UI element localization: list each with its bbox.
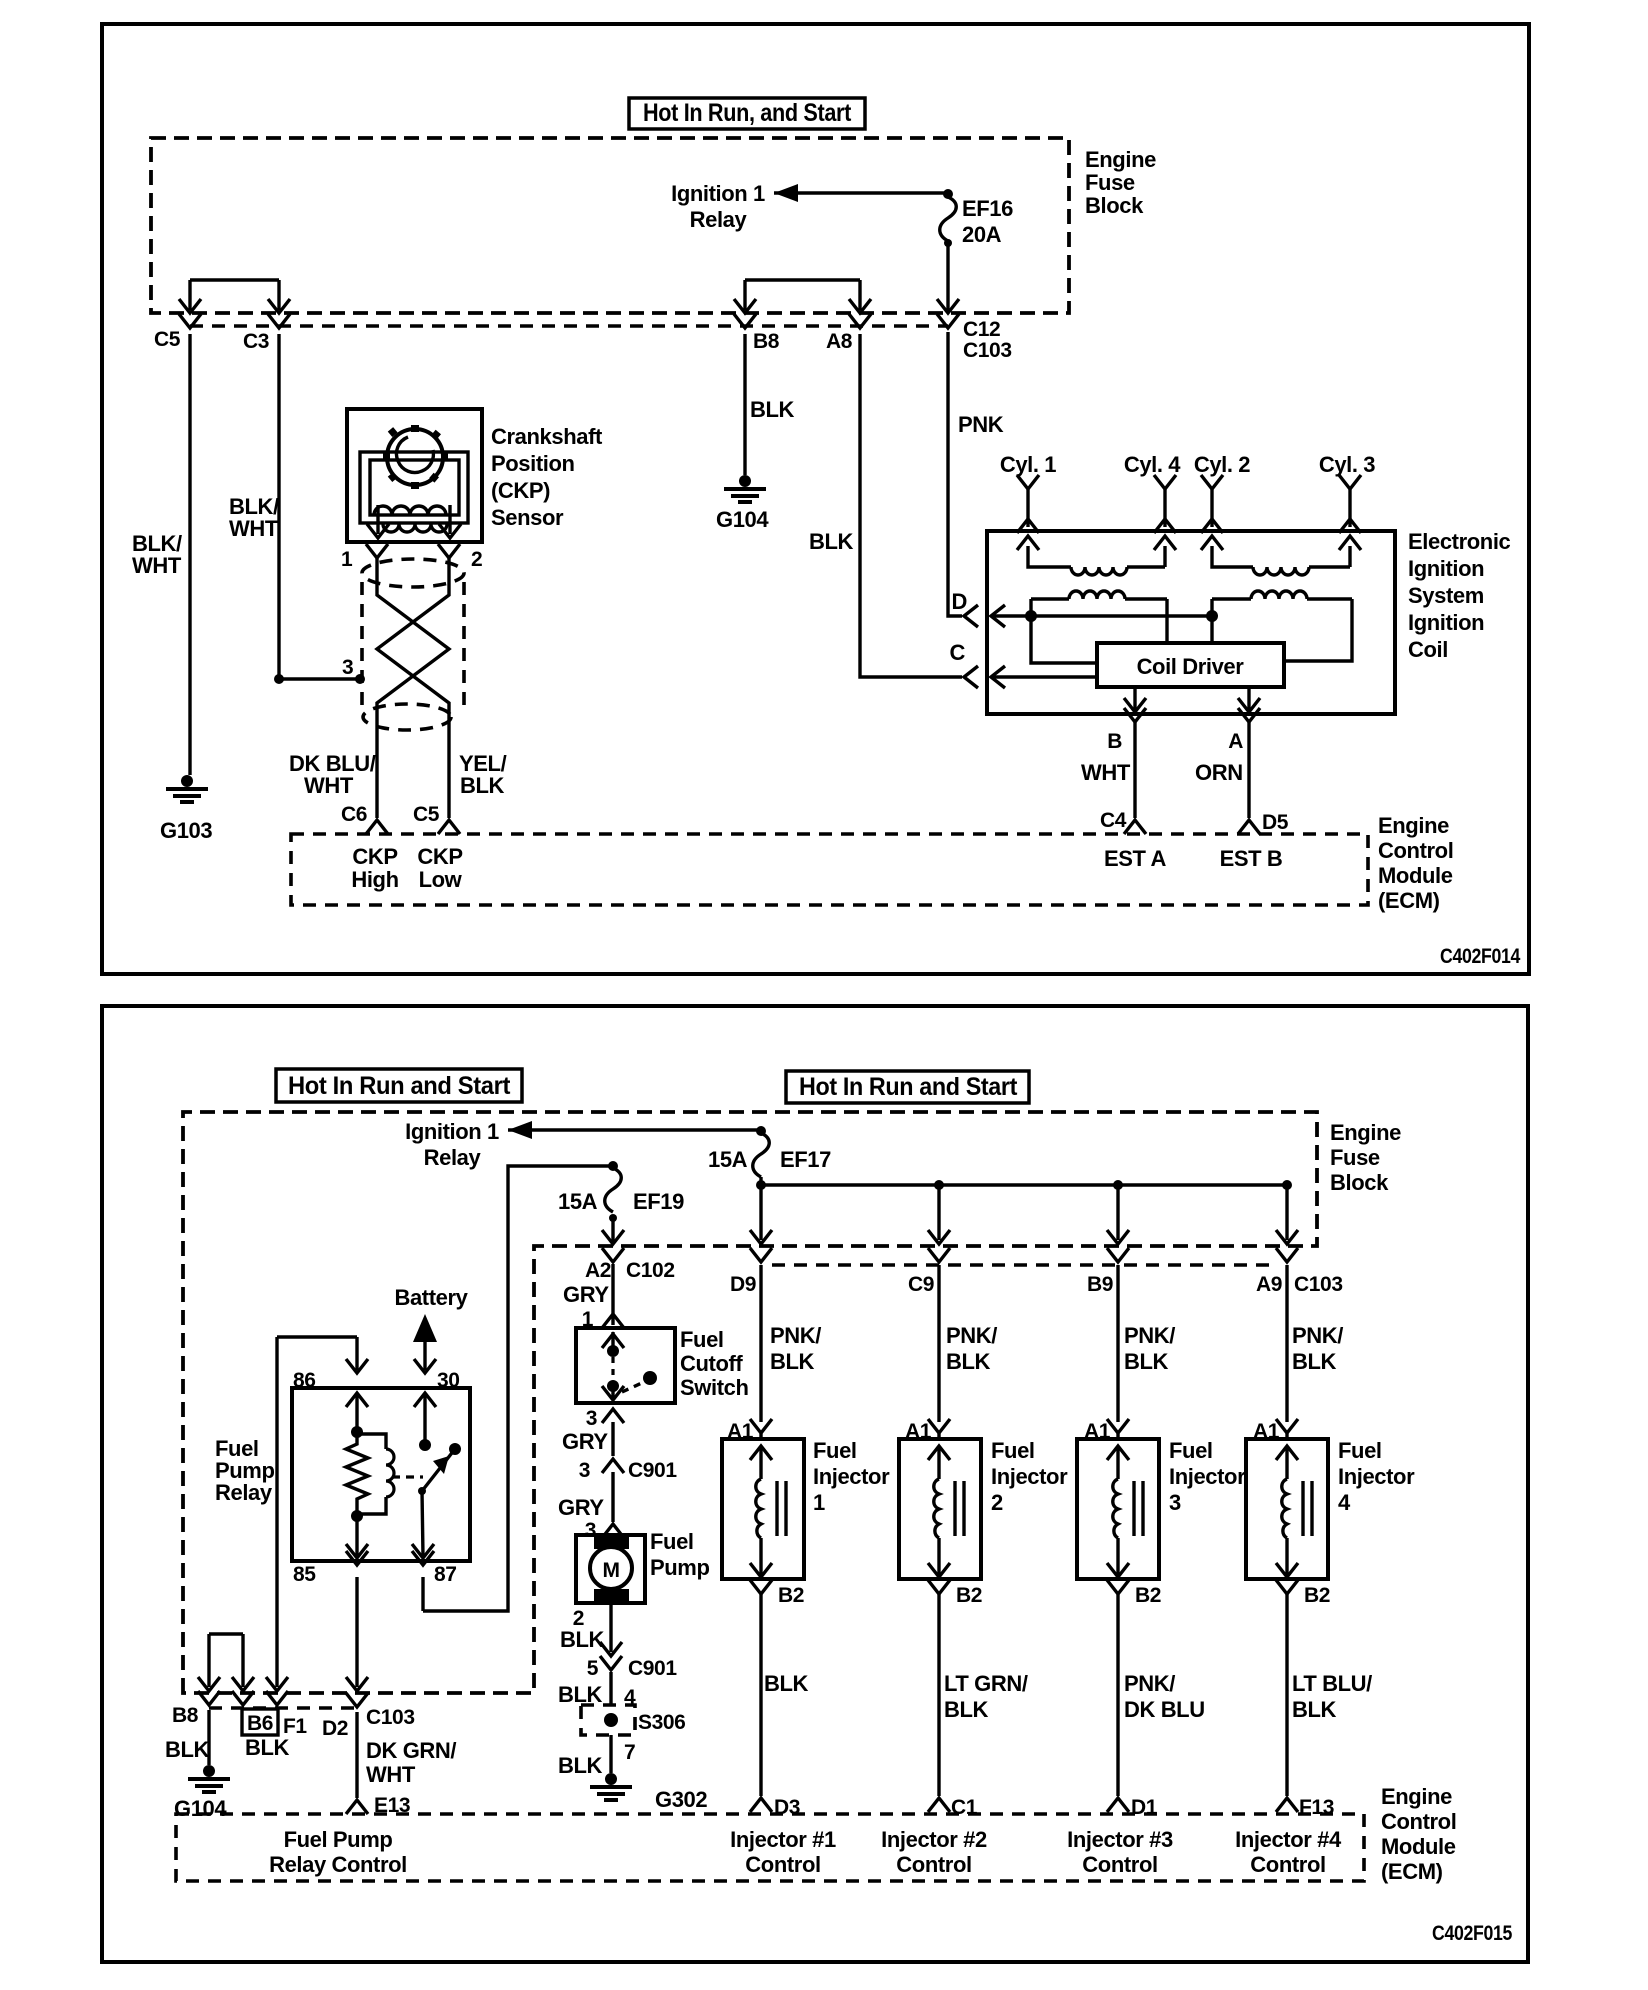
connector C5 low <box>413 803 460 834</box>
svg-text:PNK/: PNK/ <box>1124 1323 1175 1348</box>
svg-text:4: 4 <box>1338 1490 1351 1515</box>
svg-text:C402F015: C402F015 <box>1432 1922 1513 1945</box>
label CKP High <box>351 844 398 892</box>
ignition coil box <box>987 531 1395 714</box>
twisted pair shield <box>362 559 464 730</box>
coil secondary winding cyl2-cyl3 <box>1201 536 1361 575</box>
header label box: Hot In Run, and Start <box>629 98 865 129</box>
relay switch branch <box>392 1393 461 1558</box>
svg-text:G302: G302 <box>655 1787 707 1812</box>
wire from relay 87 to fuse EF19 <box>423 1161 618 1611</box>
svg-text:Fuel: Fuel <box>991 1438 1035 1463</box>
svg-text:Cutoff: Cutoff <box>680 1351 743 1376</box>
svg-text:A8: A8 <box>826 330 853 353</box>
wire BLK to G302 <box>558 1735 635 1778</box>
engine fuse block dashed box <box>151 138 1069 313</box>
connector B9 <box>1087 1248 1129 1296</box>
spark plug connector cyl 4 <box>1154 475 1176 533</box>
wire drop injector 1 supply <box>750 1185 772 1244</box>
wire DK BLU/WHT to C6 <box>289 751 376 798</box>
svg-text:Battery: Battery <box>394 1285 468 1310</box>
svg-text:20A: 20A <box>962 222 1002 247</box>
label Engine Fuse Block <box>1085 147 1156 218</box>
wire EF16 to C12 <box>937 243 959 313</box>
label Fuel Pump Relay <box>215 1436 275 1505</box>
svg-text:ORN: ORN <box>1195 760 1243 785</box>
pin 1 <box>341 544 388 571</box>
svg-text:C102: C102 <box>626 1259 675 1282</box>
svg-text:Hot In Run and Start: Hot In Run and Start <box>799 1073 1018 1101</box>
connector B2 injector 4 <box>1276 1580 1330 1607</box>
svg-text:B8: B8 <box>172 1704 199 1727</box>
relay coil branch <box>346 1393 394 1558</box>
svg-text:C103: C103 <box>963 339 1012 362</box>
ground G302 <box>590 1773 707 1812</box>
wire arrow to Ignition 1 Relay <box>774 184 953 202</box>
connector C12 C103 <box>937 314 1012 362</box>
svg-text:Relay: Relay <box>424 1145 482 1170</box>
svg-text:C103: C103 <box>1294 1273 1343 1296</box>
svg-text:Coil Driver: Coil Driver <box>1137 654 1245 679</box>
wire arrow to Ignition 1 Relay (panel2) <box>508 1121 766 1139</box>
label Injector #4 Control <box>1235 1827 1342 1877</box>
label Fuel Injector 2 <box>991 1438 1068 1515</box>
svg-text:Relay: Relay <box>215 1480 273 1505</box>
connector C1 <box>928 1796 978 1819</box>
connector F13 <box>1276 1796 1334 1819</box>
svg-text:A9: A9 <box>1256 1273 1282 1296</box>
wire C5 BLK/WHT to G103 <box>132 334 190 775</box>
wire LT BLU/BLK injector 4 to F13 <box>1287 1594 1372 1796</box>
svg-text:LT BLU/: LT BLU/ <box>1292 1671 1372 1696</box>
svg-text:Relay: Relay <box>690 207 748 232</box>
connector B2 injector 3 <box>1107 1580 1161 1607</box>
svg-text:1: 1 <box>341 548 353 571</box>
wire drop injector 2 supply <box>928 1185 950 1244</box>
svg-text:Electronic: Electronic <box>1408 529 1511 554</box>
wire B8 BLK to G104 <box>745 334 795 475</box>
wire 2 BLK from pump <box>560 1603 622 1656</box>
svg-text:B2: B2 <box>1135 1584 1161 1607</box>
wire bracket 86 feed <box>277 1337 357 1687</box>
svg-text:GRY: GRY <box>562 1429 608 1454</box>
spark plug connector cyl 2 <box>1201 475 1223 533</box>
label Fuel Injector 3 <box>1169 1438 1246 1515</box>
label Fuel Injector 1 <box>813 1438 890 1515</box>
connector B2 injector 2 <box>928 1580 982 1607</box>
twisted pair wires <box>377 558 449 818</box>
svg-text:BLK: BLK <box>460 773 505 798</box>
svg-text:15A: 15A <box>708 1147 748 1172</box>
pin 86 <box>293 1359 368 1392</box>
svg-text:GRY: GRY <box>558 1495 604 1520</box>
connector A9 C103 <box>1256 1248 1343 1296</box>
pin 87 <box>412 1551 457 1586</box>
svg-text:LT GRN/: LT GRN/ <box>944 1671 1028 1696</box>
svg-text:WHT: WHT <box>229 516 279 541</box>
label Fuel Cutoff Switch <box>680 1327 749 1400</box>
svg-text:1: 1 <box>813 1490 825 1515</box>
wire GRY to fuel pump <box>558 1472 624 1542</box>
wire GRY to fuel cutoff switch <box>563 1264 624 1331</box>
svg-text:C5: C5 <box>413 803 440 826</box>
svg-text:M: M <box>602 1559 619 1582</box>
ground G104 <box>716 475 769 532</box>
svg-text:G103: G103 <box>160 818 212 843</box>
wire B8 BLK to G104 (panel2) <box>165 1710 210 1765</box>
svg-text:C: C <box>950 640 966 665</box>
svg-text:85: 85 <box>293 1563 316 1586</box>
fuel injector 4 <box>1246 1439 1328 1579</box>
svg-text:Control: Control <box>1250 1852 1325 1877</box>
label Fuel Pump Relay Control <box>269 1827 407 1877</box>
svg-text:Block: Block <box>1330 1170 1389 1195</box>
label Fuel Injector 4 <box>1338 1438 1415 1515</box>
svg-text:Block: Block <box>1085 193 1144 218</box>
label Crankshaft Position (CKP) Sensor <box>491 424 603 530</box>
coil output B wire <box>1081 687 1146 834</box>
connector 5 C901 <box>587 1656 678 1680</box>
svg-text:A2: A2 <box>585 1259 611 1282</box>
coil driver box <box>1097 643 1284 687</box>
spark plug connector cyl 1 <box>1017 475 1039 533</box>
svg-text:Injector #3: Injector #3 <box>1067 1827 1173 1852</box>
svg-text:C9: C9 <box>908 1273 934 1296</box>
connector F1 <box>266 1691 307 1738</box>
connector C9 <box>908 1248 950 1296</box>
coil secondary winding cyl1-cyl4 <box>1017 536 1176 575</box>
fuse EF17 15A <box>708 1133 831 1177</box>
svg-text:GRY: GRY <box>563 1282 609 1307</box>
coil primary winding 1 <box>1031 591 1167 643</box>
svg-text:EST A: EST A <box>1104 846 1166 871</box>
svg-text:BLK: BLK <box>245 1735 290 1760</box>
crankshaft position sensor <box>347 409 482 542</box>
pin 85 <box>293 1551 368 1586</box>
svg-text:WHT: WHT <box>1081 760 1131 785</box>
fuel cutoff switch <box>576 1328 675 1403</box>
svg-text:B6: B6 <box>247 1712 273 1735</box>
svg-text:C901: C901 <box>628 1459 677 1482</box>
svg-text:Injector: Injector <box>813 1464 890 1489</box>
svg-text:BLK: BLK <box>558 1753 603 1778</box>
svg-text:87: 87 <box>434 1563 457 1586</box>
ECM dashed box (panel1) <box>291 834 1368 905</box>
svg-text:Ignition: Ignition <box>1408 610 1484 635</box>
fuel pump relay box <box>292 1388 470 1561</box>
svg-text:Module: Module <box>1381 1834 1456 1859</box>
label Engine Fuse Block (panel2) <box>1330 1120 1401 1195</box>
wire A8 BLK to coil input C <box>809 334 962 677</box>
connector D1 <box>1107 1796 1158 1819</box>
svg-text:Cyl. 1: Cyl. 1 <box>1000 452 1056 477</box>
svg-text:D9: D9 <box>730 1273 756 1296</box>
svg-text:Sensor: Sensor <box>491 505 564 530</box>
fuel pump motor <box>576 1535 645 1603</box>
svg-text:BLK: BLK <box>750 397 795 422</box>
svg-text:Ignition 1: Ignition 1 <box>671 181 765 206</box>
svg-text:D2: D2 <box>322 1717 348 1740</box>
svg-text:BLK: BLK <box>944 1697 989 1722</box>
wire PNK/BLK injector 1 <box>761 1265 821 1422</box>
svg-text:B2: B2 <box>778 1584 804 1607</box>
svg-text:Engine: Engine <box>1378 813 1449 838</box>
svg-text:S306: S306 <box>638 1711 685 1734</box>
label Ignition 1 Relay <box>671 181 765 232</box>
label Electronic Ignition System Ignition Coil <box>1408 529 1511 662</box>
svg-text:B8: B8 <box>753 330 780 353</box>
svg-text:WHT: WHT <box>132 553 182 578</box>
svg-text:Fuse: Fuse <box>1085 170 1135 195</box>
svg-text:C4: C4 <box>1100 809 1127 832</box>
svg-text:C901: C901 <box>628 1657 677 1680</box>
connector D2 C103 <box>322 1677 415 1740</box>
svg-text:PNK: PNK <box>958 412 1004 437</box>
svg-text:BLK: BLK <box>1124 1349 1169 1374</box>
label Fuel Pump <box>650 1529 710 1580</box>
wire LT GRN/BLK injector 2 to C1 <box>939 1594 1028 1796</box>
connector B6 boxed <box>232 1691 278 1735</box>
wire bracket C5/C3 <box>179 280 290 313</box>
svg-text:Coil: Coil <box>1408 637 1448 662</box>
svg-text:PNK/: PNK/ <box>1292 1323 1343 1348</box>
label Ignition 1 Relay (panel2) <box>405 1119 499 1170</box>
svg-text:Fuel: Fuel <box>813 1438 857 1463</box>
svg-text:Module: Module <box>1378 863 1453 888</box>
svg-text:C5: C5 <box>154 328 181 351</box>
label Injector #3 Control <box>1067 1827 1173 1877</box>
ECM dashed box (panel2) <box>176 1814 1364 1881</box>
svg-text:Control: Control <box>896 1852 971 1877</box>
svg-text:BLK: BLK <box>560 1627 605 1652</box>
wire D2 DK GRN/WHT to E13 <box>357 1712 456 1798</box>
svg-text:5: 5 <box>587 1657 599 1680</box>
svg-text:Fuse: Fuse <box>1330 1145 1380 1170</box>
ground G103 <box>160 775 212 843</box>
svg-text:B2: B2 <box>956 1584 982 1607</box>
svg-text:G104: G104 <box>716 507 769 532</box>
wire BLK injector 1 to D3 <box>761 1594 809 1796</box>
coil input C <box>950 640 1098 688</box>
svg-text:Hot In Run, and Start: Hot In Run, and Start <box>643 99 852 127</box>
svg-text:Fuel: Fuel <box>1338 1438 1382 1463</box>
svg-text:C402F014: C402F014 <box>1440 945 1521 968</box>
connector B8 <box>734 314 780 353</box>
label Engine Control Module (ECM) <box>1378 813 1453 913</box>
svg-text:PNK/: PNK/ <box>770 1323 821 1348</box>
svg-text:3: 3 <box>342 656 353 679</box>
svg-text:WHT: WHT <box>366 1762 416 1787</box>
svg-text:Pump: Pump <box>650 1555 710 1580</box>
header label box left: Hot In Run and Start <box>276 1069 522 1102</box>
svg-text:Engine: Engine <box>1330 1120 1401 1145</box>
wire C3 BLK/WHT to pin 3 <box>229 334 365 684</box>
svg-text:WHT: WHT <box>304 773 354 798</box>
wire EF19 to A2 <box>602 1218 624 1244</box>
svg-text:DK BLU: DK BLU <box>1124 1697 1205 1722</box>
fuse EF16 20A <box>940 196 1013 247</box>
injector supply bus wire <box>756 1177 1292 1190</box>
svg-text:Injector #2: Injector #2 <box>881 1827 987 1852</box>
svg-text:D5: D5 <box>1262 811 1289 834</box>
svg-text:15A: 15A <box>558 1189 598 1214</box>
svg-text:2: 2 <box>471 548 482 571</box>
wire C12 PNK to coil input D <box>948 332 1004 616</box>
svg-text:Crankshaft: Crankshaft <box>491 424 603 449</box>
svg-text:DK GRN/: DK GRN/ <box>366 1738 456 1763</box>
svg-text:PNK/: PNK/ <box>1124 1671 1175 1696</box>
svg-text:C3: C3 <box>243 330 269 353</box>
connector A1 injector 3 <box>1084 1419 1129 1443</box>
svg-text:D: D <box>952 589 968 614</box>
ground loop B8-B6 <box>198 1634 288 1691</box>
connector pin 3 below switch <box>586 1407 624 1430</box>
connector A8 <box>826 314 871 353</box>
svg-text:Cyl. 4: Cyl. 4 <box>1124 452 1181 477</box>
coil primary winding 2 <box>1212 591 1352 661</box>
header label box right: Hot In Run and Start <box>786 1071 1029 1103</box>
svg-text:Hot In Run and Start: Hot In Run and Start <box>288 1072 511 1100</box>
connector dashed line C103 (panel2 bottom) <box>209 1706 357 1710</box>
svg-text:Injector #1: Injector #1 <box>730 1827 836 1852</box>
fuel injector 1 <box>722 1439 804 1579</box>
svg-text:C12: C12 <box>963 318 1000 341</box>
svg-text:Control: Control <box>1082 1852 1157 1877</box>
svg-text:A: A <box>1228 730 1243 753</box>
connector B2 injector 1 <box>750 1580 804 1607</box>
svg-text:BLK: BLK <box>1292 1349 1337 1374</box>
svg-text:Fuel: Fuel <box>680 1327 724 1352</box>
svg-text:Ignition: Ignition <box>1408 556 1484 581</box>
svg-text:3: 3 <box>586 1407 597 1430</box>
fuel injector 3 <box>1077 1439 1159 1579</box>
svg-text:Switch: Switch <box>680 1375 749 1400</box>
svg-text:BLK: BLK <box>558 1682 603 1707</box>
connector C5 <box>154 314 201 351</box>
svg-text:EF16: EF16 <box>962 196 1013 221</box>
svg-text:B9: B9 <box>1087 1273 1113 1296</box>
label Injector #1 Control <box>730 1827 836 1877</box>
fuel injector 2 <box>899 1439 981 1579</box>
label CKP Low <box>417 844 462 892</box>
svg-text:Injector: Injector <box>1169 1464 1246 1489</box>
panel 1 outer border <box>102 24 1529 974</box>
svg-text:BLK: BLK <box>946 1349 991 1374</box>
svg-text:Engine: Engine <box>1381 1784 1452 1809</box>
svg-text:Fuel Pump: Fuel Pump <box>284 1827 393 1852</box>
svg-text:3: 3 <box>579 1459 590 1482</box>
svg-text:C103: C103 <box>366 1706 415 1729</box>
connector A1 injector 1 <box>727 1419 772 1443</box>
label Injector #2 Control <box>881 1827 987 1877</box>
wire GRY to C901 <box>562 1422 613 1456</box>
wire PNK/BLK injector 2 <box>939 1265 997 1422</box>
svg-text:BLK: BLK <box>809 529 854 554</box>
svg-text:BLK: BLK <box>1292 1697 1337 1722</box>
svg-text:Control: Control <box>1378 838 1453 863</box>
wire battery arrow to pin 30 <box>413 1314 437 1370</box>
coil input D <box>952 589 1219 663</box>
connector A1 injector 4 <box>1253 1419 1298 1443</box>
svg-text:BLK: BLK <box>165 1737 210 1762</box>
svg-text:High: High <box>351 867 398 892</box>
connector 3 C901 <box>579 1459 678 1482</box>
svg-text:System: System <box>1408 583 1484 608</box>
svg-text:Ignition 1: Ignition 1 <box>405 1119 499 1144</box>
spark plug connector cyl 3 <box>1339 475 1361 533</box>
panel 2 outer border <box>102 1006 1528 1962</box>
svg-text:EF17: EF17 <box>780 1147 831 1172</box>
svg-text:Injector #4: Injector #4 <box>1235 1827 1342 1852</box>
connector B8 (panel2) <box>172 1691 220 1727</box>
wire bracket B8/A8 <box>734 280 871 313</box>
svg-text:Control: Control <box>1381 1809 1456 1834</box>
connector D3 <box>750 1796 800 1819</box>
svg-text:7: 7 <box>624 1741 635 1764</box>
svg-text:Fuel: Fuel <box>1169 1438 1213 1463</box>
svg-text:BLK: BLK <box>764 1671 809 1696</box>
coil output A wire <box>1195 687 1289 834</box>
svg-text:EF19: EF19 <box>633 1189 684 1214</box>
wire YEL/BLK to C5 <box>459 751 507 798</box>
svg-text:C6: C6 <box>341 803 367 826</box>
connector C6 <box>341 803 388 834</box>
connector E13 <box>346 1794 410 1817</box>
splice S306 <box>581 1705 685 1735</box>
svg-text:BLK: BLK <box>770 1349 815 1374</box>
connector A2 C102 <box>585 1248 675 1282</box>
svg-text:G104: G104 <box>174 1796 227 1821</box>
wire PNK/BLK injector 3 <box>1118 1265 1175 1422</box>
svg-text:Cyl. 2: Cyl. 2 <box>1194 452 1250 477</box>
svg-text:B2: B2 <box>1304 1584 1330 1607</box>
svg-text:CKP: CKP <box>417 844 462 869</box>
wire PNK/DK BLU injector 3 to D1 <box>1118 1594 1205 1796</box>
svg-text:Control: Control <box>745 1852 820 1877</box>
svg-text:Engine: Engine <box>1085 147 1156 172</box>
connector D9 <box>730 1248 772 1296</box>
svg-text:Injector: Injector <box>991 1464 1068 1489</box>
svg-text:Position: Position <box>491 451 575 476</box>
svg-text:B: B <box>1107 730 1122 753</box>
pin 2 <box>438 544 482 571</box>
connector A1 injector 2 <box>905 1419 950 1443</box>
svg-text:CKP: CKP <box>352 844 397 869</box>
svg-text:EST B: EST B <box>1220 846 1283 871</box>
svg-text:(ECM): (ECM) <box>1381 1859 1443 1884</box>
pin 30 <box>414 1359 460 1392</box>
connector dashed line C103 (panel1) <box>190 324 948 328</box>
fuse EF19 15A <box>558 1168 684 1222</box>
connector dashed line C103 injectors <box>772 1263 1278 1267</box>
ground G104 (panel2) <box>174 1765 230 1821</box>
svg-text:(ECM): (ECM) <box>1378 888 1440 913</box>
svg-text:3: 3 <box>1169 1490 1181 1515</box>
wire PNK/BLK injector 4 <box>1287 1265 1343 1422</box>
svg-text:2: 2 <box>991 1490 1003 1515</box>
svg-text:Low: Low <box>419 867 463 892</box>
svg-text:Injector: Injector <box>1338 1464 1415 1489</box>
svg-text:Relay Control: Relay Control <box>269 1852 407 1877</box>
svg-text:(CKP): (CKP) <box>491 478 550 503</box>
svg-text:PNK/: PNK/ <box>946 1323 997 1348</box>
connector C3 <box>243 314 290 353</box>
svg-text:Cyl. 3: Cyl. 3 <box>1319 452 1375 477</box>
wire drop injector 3 supply <box>1107 1185 1129 1244</box>
label Engine Control Module (ECM) panel2 <box>1381 1784 1456 1884</box>
wire BLK to S306 <box>558 1672 636 1709</box>
wire drop injector 4 supply <box>1276 1185 1298 1244</box>
